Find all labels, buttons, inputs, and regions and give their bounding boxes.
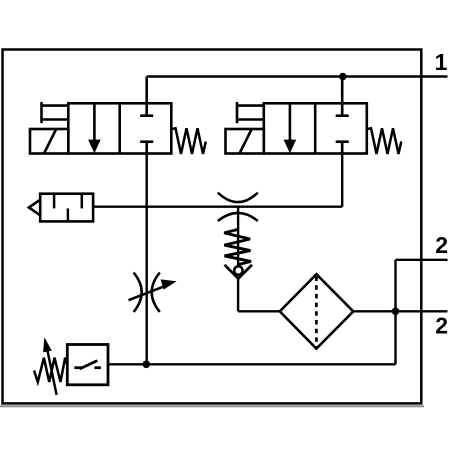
svg-text:2: 2 [435, 313, 448, 339]
svg-text:1: 1 [435, 49, 448, 75]
svg-text:2: 2 [435, 232, 448, 258]
